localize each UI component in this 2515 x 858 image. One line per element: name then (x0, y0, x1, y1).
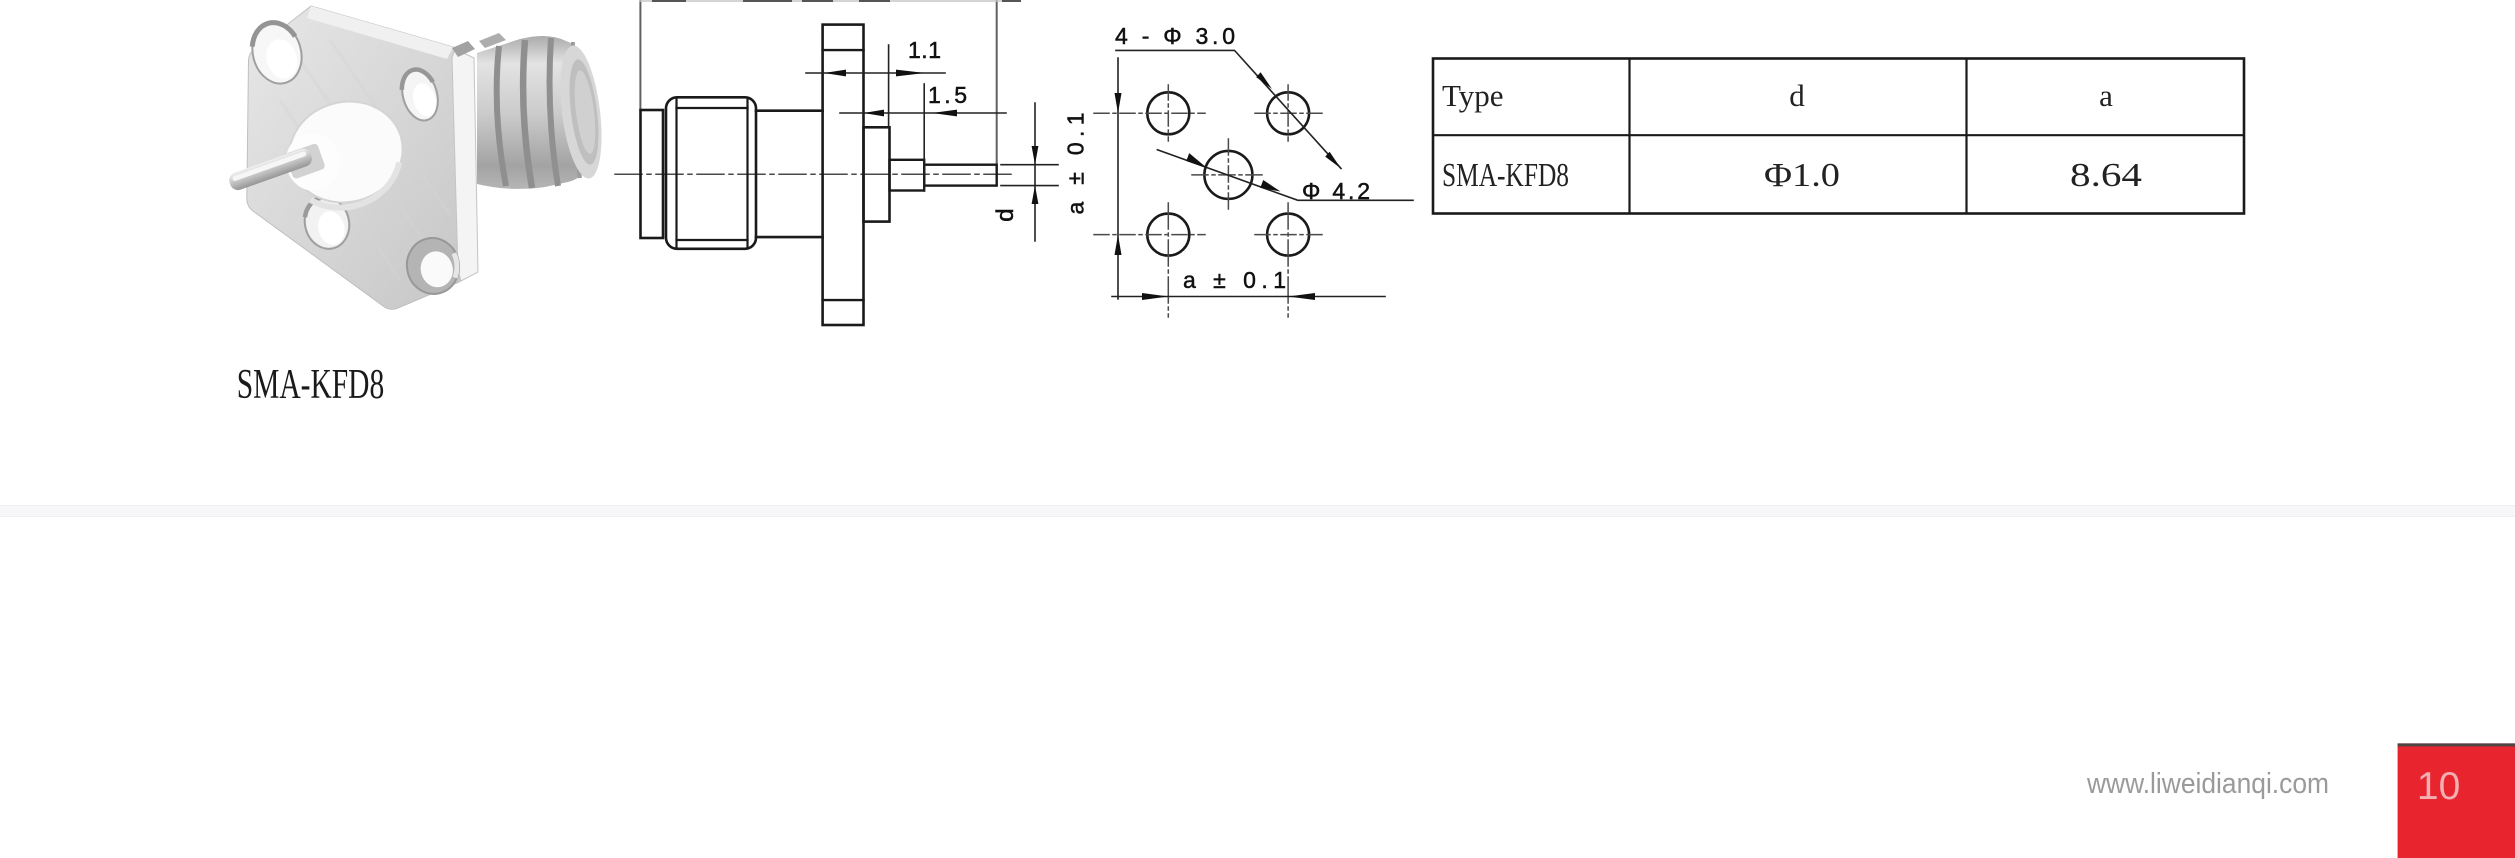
dim 1.1: arrow at flange front face (824, 70, 846, 77)
rear bushing (864, 127, 890, 221)
footer red page square (2398, 743, 2515, 858)
centerline (axis) (615, 173, 1012, 175)
table outer border (1433, 59, 2244, 214)
dim d: extension lines from pin (1001, 165, 1058, 186)
dim 1.5: extension line at x=924.2 (923, 84, 925, 191)
dim 1.1: arrow right (896, 70, 925, 77)
photo: barrel end cap (554, 43, 608, 181)
hole top-left circle (1147, 92, 1189, 134)
svg-text:1.5: 1.5 (928, 82, 967, 108)
photo: PTFE insulator disc (279, 90, 414, 215)
cut-off top remnant marks (653, 0, 1020, 2)
photo: barrel coupling body (477, 36, 599, 189)
svg-text:www.liweidianqi.com: www.liweidianqi.com (2086, 768, 2329, 800)
centerline verticals top holes (1168, 85, 1288, 141)
svg-text:d: d (1789, 78, 1805, 113)
svg-text:4 - Φ 3.0: 4 - Φ 3.0 (1115, 23, 1235, 49)
dim a vertical: dimension line (1117, 58, 1119, 299)
photo: pin collar (285, 143, 326, 180)
mid cylinder (756, 111, 823, 237)
side view technical drawing (615, 0, 1058, 325)
photo: mounting hole bottom-left (299, 192, 354, 253)
svg-text:Type: Type (1442, 78, 1504, 113)
leader phi4.2: arrow at circle edge (1186, 153, 1207, 168)
centerline bottom row horizontal (1094, 234, 1324, 236)
hex nut body outer (666, 97, 756, 249)
table row divider (1433, 134, 2244, 136)
hole top-right circle (1267, 92, 1309, 134)
hole bottom-left circle (1147, 214, 1189, 256)
svg-text:8.64: 8.64 (2070, 157, 2142, 194)
spec table (1433, 59, 2244, 214)
photo: plate face texture streaks (280, 40, 450, 280)
svg-text:d: d (992, 208, 1019, 221)
svg-text:a ± 0.1: a ± 0.1 (1063, 113, 1089, 215)
photo: mounting hole bottom-right (402, 233, 465, 299)
photo: flange right side face (bright) (452, 49, 478, 281)
photo: contact pin (227, 147, 314, 193)
dim d: vertical dimension line with outside arrows (1034, 103, 1036, 241)
cut-off top remnant line (640, 0, 1016, 2)
svg-text:Φ 4.2: Φ 4.2 (1302, 178, 1370, 204)
hex nut inner vertical lines (677, 100, 748, 247)
dim a vertical: arrows (1115, 93, 1122, 113)
dim 1.1: extension line at x=888.6 (888, 45, 890, 127)
table column divider 2 (1965, 59, 1967, 214)
dim 1.1: dimension line (806, 72, 945, 74)
red square top shadow edge (2398, 743, 2515, 746)
svg-text:Φ1.0: Φ1.0 (1764, 157, 1840, 194)
interface end rectangle (641, 110, 664, 238)
dim 1.5: arrow at flange rear face (864, 110, 885, 117)
center hole circle (4.2) (1204, 151, 1252, 199)
leader 4-phi3.0: underline and diagonal through top-right hole (1116, 50, 1341, 168)
leader 4-phi3.0: mid arrow at circle rim (1256, 72, 1272, 89)
terminal pin (924, 165, 997, 186)
svg-text:a: a (2099, 78, 2113, 113)
hole bottom-right circle (1267, 214, 1309, 256)
centerline center hole (1192, 139, 1266, 212)
photo: SMA-KFD8 connector product photo (stylized) (227, 6, 608, 309)
dim 1.5: dimension line (840, 112, 1006, 114)
photo: flange top bevel highlight (307, 6, 453, 59)
svg-text:SMA-KFD8: SMA-KFD8 (237, 362, 385, 408)
table column divider 1 (1628, 59, 1630, 214)
photo: barrel thread grooves (497, 46, 506, 186)
hex nut chamfer lines (677, 108, 748, 240)
svg-text:a ± 0.1: a ± 0.1 (1183, 267, 1286, 293)
leader phi4.2: diagonal line (1157, 150, 1413, 201)
footer separator band (0, 506, 2515, 517)
photo: mounting hole right-top (396, 65, 443, 124)
dim a horizontal: dimension line (1112, 296, 1385, 298)
pin support step (890, 160, 925, 191)
leader 4-phi3.0: arrow at far end (1325, 152, 1341, 169)
flange (side) (823, 25, 864, 325)
photo: junction shadow notches (452, 41, 475, 57)
svg-text:SMA-KFD8: SMA-KFD8 (1442, 157, 1569, 194)
centerline top row horizontal (1094, 112, 1324, 114)
photo: flange plate front face (247, 6, 465, 309)
svg-text:10: 10 (2417, 765, 2460, 808)
photo: PTFE boss toward pin (280, 127, 346, 196)
cut-off frame line right (996, 0, 998, 163)
flange face hole-pattern view (1063, 23, 1414, 317)
leader phi4.2: exit-side arrow (1260, 180, 1280, 192)
cut-off frame line left (639, 0, 641, 110)
flange ear lines (823, 50, 864, 300)
photo: mounting hole top-left (245, 17, 308, 90)
centerline verticals bottom holes (extend to dim line) (1168, 203, 1288, 317)
dim 1.5: arrow right of pin step (932, 110, 957, 117)
dim a horizontal: arrows (1142, 293, 1168, 300)
svg-text:1.1: 1.1 (908, 37, 941, 63)
